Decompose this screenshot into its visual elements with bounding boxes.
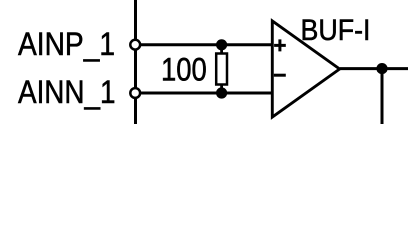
op-amp U1 BUF-I [272,21,339,117]
junction dot bottom [216,87,227,98]
terminal AINP_1 (open circle) [130,40,140,50]
terminal AINN_1 (open circle) [130,88,140,98]
pin label + [274,39,286,51]
wire: AINP_1 to op-amp noninverting input [135,43,274,46]
junction dot top [216,39,227,50]
svg-text:AINP_1: AINP_1 [18,26,115,62]
resistor R (body) [216,54,227,85]
wire: vertical bus line [134,0,137,124]
wire: AINN_1 to op-amp inverting input [135,92,274,95]
wire: output branch down [381,69,384,124]
svg-text:100: 100 [161,51,207,87]
junction dot output [376,63,387,74]
wire: resistor leads [220,45,223,93]
svg-text:AINN_1: AINN_1 [18,74,116,110]
wire: op-amp output [340,67,408,70]
svg-text:BUF-I: BUF-I [301,14,371,47]
pin label - [274,74,286,77]
